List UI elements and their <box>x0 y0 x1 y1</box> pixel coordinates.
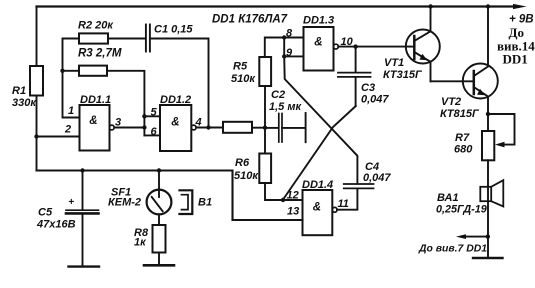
capacitor C4 plates <box>344 183 374 185</box>
resistor R1 <box>30 66 43 96</box>
wire R8 bottom lead <box>158 253 160 265</box>
svg-text:&: & <box>313 202 321 214</box>
wire C3 bottom lead <box>355 77 357 106</box>
svg-text:R7: R7 <box>455 132 470 144</box>
node bottom rail C5 junction <box>80 168 84 172</box>
svg-text:5: 5 <box>151 107 158 119</box>
gate DD1.3 <box>304 27 334 71</box>
wire pin 10 to VT1 base <box>338 46 410 48</box>
node pin10 / C3 junction <box>353 44 357 48</box>
speaker BA1 <box>480 187 491 201</box>
ground under C5 <box>69 265 100 267</box>
gate DD1.1 output inversion circle <box>109 125 114 130</box>
svg-text:&: & <box>89 115 97 127</box>
svg-text:C1 0,15: C1 0,15 <box>154 24 193 36</box>
wire R4 right lead <box>252 127 265 129</box>
wire R5 bottom lead <box>264 86 266 128</box>
wire C2 right lead <box>282 127 305 129</box>
wire C4 bottom lead to pin 11 <box>337 189 357 210</box>
wire R3 left lead <box>63 70 80 72</box>
transistor VT1 circle <box>406 30 440 64</box>
node bar pin3 <box>142 125 146 129</box>
svg-text:510к: 510к <box>234 170 259 182</box>
wire C5 bottom lead <box>82 215 84 267</box>
gate DD1.2 output inversion circle <box>191 125 196 130</box>
svg-text:13: 13 <box>287 206 299 218</box>
svg-text:&: & <box>314 37 322 49</box>
svg-text:DD1.1: DD1.1 <box>80 94 111 106</box>
node R5/R6/C2 junction <box>263 126 267 130</box>
wire R2 left lead <box>63 38 80 40</box>
wire bottom rail <box>37 171 303 221</box>
capacitor C2 right plate <box>305 113 307 142</box>
resistor R4 (unlabeled horizontal) <box>223 122 252 133</box>
svg-text:&: & <box>171 117 179 129</box>
svg-text:330к: 330к <box>12 97 37 109</box>
wire C1 right lead down to pin4 node <box>150 39 209 128</box>
svg-text:9: 9 <box>286 47 293 59</box>
svg-text:ВА1: ВА1 <box>437 192 459 204</box>
capacitor C2 plates <box>278 114 280 143</box>
svg-text:0,047: 0,047 <box>361 94 389 106</box>
svg-text:DD1: DD1 <box>503 52 528 67</box>
svg-text:3: 3 <box>115 117 121 129</box>
svg-text:R5: R5 <box>233 61 248 73</box>
capacitor C3 plates <box>338 72 371 74</box>
svg-text:4: 4 <box>195 117 202 129</box>
svg-text:C3: C3 <box>361 82 375 94</box>
svg-text:1: 1 <box>68 105 74 117</box>
svg-text:C5: C5 <box>38 207 53 219</box>
svg-text:2: 2 <box>64 124 71 136</box>
svg-text:КЕМ-2: КЕМ-2 <box>108 197 141 209</box>
wire SF1 top lead <box>158 171 160 198</box>
node pin12 junction <box>281 198 285 202</box>
svg-text:R3 2,7М: R3 2,7М <box>78 48 122 60</box>
wire diagonal C3 to pin 12 <box>283 106 356 200</box>
svg-text:VT1: VT1 <box>384 57 404 69</box>
svg-text:VT2: VT2 <box>441 96 461 108</box>
magnet B1 <box>180 190 193 214</box>
wire C3 top lead <box>355 47 357 72</box>
wire pin 8 stub <box>284 37 303 39</box>
wire pin 3 to DD1.2 inputs <box>114 127 144 129</box>
wire top +9V rail <box>37 5 516 7</box>
svg-text:0,047: 0,047 <box>363 172 391 184</box>
svg-text:КТ815Г: КТ815Г <box>440 108 480 120</box>
node VT2 emitter / R7 junction <box>486 112 490 116</box>
wire DD1.2 input bar <box>143 116 145 135</box>
svg-text:В1: В1 <box>198 197 212 209</box>
transistor VT2 circle <box>463 64 498 99</box>
wire R6 top lead <box>264 128 266 154</box>
transistor VT2 base bar <box>473 71 476 94</box>
svg-text:До вив.7 DD1: До вив.7 DD1 <box>418 244 487 255</box>
ground under R8 <box>144 264 174 267</box>
capacitor C1 plates <box>145 25 147 52</box>
svg-text:6: 6 <box>151 126 158 138</box>
wire VT1 emitter to VT2 base <box>431 80 474 82</box>
wire pin8 to R5 <box>265 38 284 58</box>
transistor VT1 collector <box>414 7 430 42</box>
svg-text:DD1.4: DD1.4 <box>302 179 333 191</box>
svg-text:КТ315Г: КТ315Г <box>383 69 423 81</box>
node R1 / pin2 junction <box>34 134 38 138</box>
node R3 left junction <box>60 69 64 73</box>
resistor R5 <box>259 57 271 86</box>
wire DD1.3 input bar <box>283 38 285 57</box>
node R7 wiper arrowhead <box>495 142 505 148</box>
node bar pin9 <box>282 54 286 58</box>
wire R1 bottom lead down to bottom rail <box>36 96 38 171</box>
svg-text:11: 11 <box>338 198 349 210</box>
svg-text:DD1 К176ЛА7: DD1 К176ЛА7 <box>212 14 288 26</box>
capacitor C5 plates <box>66 209 99 211</box>
wire C5 top lead <box>82 171 84 210</box>
node rail junction VT2 collector <box>486 4 490 8</box>
gate DD1.2 <box>160 105 191 151</box>
wire pin 9 stub <box>284 55 303 57</box>
transistor VT2 collector <box>474 7 488 77</box>
wire R3 right lead to DD1.2 input bar <box>107 71 144 117</box>
wire arrow to pin 7 DD1 <box>464 236 488 238</box>
ground under BA1 <box>473 257 503 259</box>
svg-text:680: 680 <box>454 144 473 156</box>
wire R1 top lead <box>36 7 38 67</box>
op-amp U=gate DD1.1 <box>80 105 110 151</box>
svg-text:+ 9В: + 9В <box>509 14 534 26</box>
wire R7 wiper feedback loop <box>488 114 515 145</box>
transistor VT1 emitter <box>414 52 430 81</box>
capacitor C2 left lead <box>265 127 278 129</box>
transistor VT2 emitter <box>474 87 488 114</box>
wire pin 6 stub <box>144 134 160 136</box>
svg-text:R2 20к: R2 20к <box>78 20 114 32</box>
svg-text:DD1.2: DD1.2 <box>160 94 191 106</box>
gate DD1.4 output inversion circle <box>332 207 337 212</box>
svg-text:8: 8 <box>286 28 293 40</box>
wire pin 4 <box>196 127 223 129</box>
svg-text:510к: 510к <box>231 73 256 85</box>
svg-text:C2: C2 <box>271 89 285 101</box>
wire pin 5 stub <box>144 115 160 117</box>
node rail junction VT1 collector <box>428 4 432 8</box>
wire R7 bottom lead <box>487 160 489 257</box>
svg-text:+: + <box>68 197 74 208</box>
node BA1 / arrow junction <box>486 234 490 238</box>
svg-text:10: 10 <box>341 36 354 48</box>
wire pin 2 lead <box>37 136 80 138</box>
svg-text:1,5 мк: 1,5 мк <box>269 101 302 113</box>
wire SF1 to R8 <box>158 214 160 225</box>
resistor R8 <box>153 225 166 253</box>
node bottom rail SF1 junction <box>157 168 161 172</box>
resistor R3 <box>79 66 107 76</box>
resistor R6 <box>259 154 271 184</box>
transistor VT1 base bar <box>413 36 416 59</box>
node bar pin8 <box>282 35 286 39</box>
wire R7 top lead <box>487 114 489 131</box>
node top rail arrow tip <box>513 4 527 9</box>
resistor R2 <box>79 33 108 43</box>
wire R6 bottom lead <box>265 183 283 200</box>
gate DD1.3 output inversion circle <box>334 44 339 49</box>
switch SF1 <box>147 190 172 215</box>
svg-text:12: 12 <box>287 190 299 202</box>
wire VT1 base stub <box>410 46 415 48</box>
wire R2/R3 left column down to pin 1 <box>63 39 80 118</box>
wire diagonal pin 9 to C4 <box>284 56 357 183</box>
resistor R7 (adjustable) <box>482 131 494 160</box>
wire R2 right lead to C1 <box>108 38 145 40</box>
svg-text:R1: R1 <box>12 85 26 97</box>
svg-text:47x16В: 47x16В <box>36 219 76 231</box>
node bar pin5 <box>142 114 146 118</box>
svg-text:1к: 1к <box>134 237 147 249</box>
node pin4 / C1 junction <box>206 125 210 129</box>
svg-text:DD1.3: DD1.3 <box>303 15 334 27</box>
svg-text:R6: R6 <box>235 157 250 169</box>
svg-text:0,25ГД-19: 0,25ГД-19 <box>436 204 487 216</box>
gate DD1.4 <box>303 190 333 235</box>
wire pin 12 stub <box>283 199 303 201</box>
